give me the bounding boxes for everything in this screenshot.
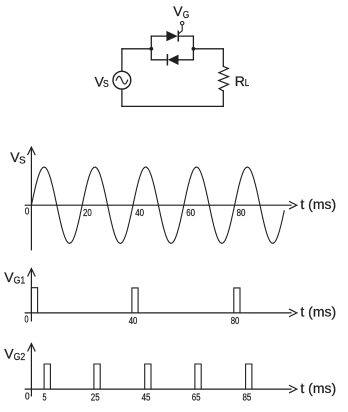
svg-text:S: S (103, 79, 109, 90)
svg-text:t (ms): t (ms) (300, 196, 336, 212)
wire RL bottom (222, 91, 224, 107)
svg-text:0: 0 (25, 315, 29, 326)
wire left horizontal (122, 48, 151, 50)
svg-text:t (ms): t (ms) (300, 304, 336, 320)
VG2 pulse at 85 (246, 364, 252, 389)
junction node left (149, 47, 153, 51)
svg-text:G: G (183, 10, 190, 21)
svg-text:t (ms): t (ms) (300, 380, 336, 396)
svg-text:0: 0 (25, 391, 30, 402)
resistor RL zigzag (219, 66, 229, 91)
svg-text:85: 85 (243, 392, 252, 403)
svg-text:S: S (19, 156, 26, 167)
wire RL top (222, 49, 224, 67)
thyristor SCR1 triangle (166, 31, 177, 41)
VG2 pulse at 65 (195, 364, 201, 389)
source VS sine symbol (116, 76, 127, 84)
VG2 plot y-axis (28, 344, 35, 396)
svg-text:45: 45 (142, 392, 151, 403)
svg-text:80: 80 (237, 208, 246, 219)
VG2 pulse at 5 (44, 364, 50, 389)
wire VS bottom (121, 89, 123, 106)
thyristor SCR1 cathode bar (177, 31, 179, 41)
VS plot x-axis (25, 202, 297, 209)
VG1 pulse at 0 (31, 288, 37, 313)
VG1 pulse at 40 (132, 288, 138, 313)
VS sine curve (31, 167, 284, 243)
gate wire (179, 25, 183, 34)
wire parallel-box right vertical (192, 36, 194, 60)
VG2 pulse at 25 (94, 364, 100, 389)
thyristor SCR2 triangle (168, 55, 179, 65)
VG2 plot x-axis (25, 386, 297, 393)
wire VS top (121, 49, 123, 72)
VG1 plot x-axis (25, 309, 297, 316)
svg-text:65: 65 (192, 392, 201, 403)
svg-text:G2: G2 (14, 352, 26, 363)
junction node right (192, 47, 196, 51)
svg-text:80: 80 (231, 316, 240, 327)
VG2 pulse at 45 (145, 364, 151, 389)
svg-text:V: V (173, 3, 183, 19)
wire bottom horizontal (122, 105, 223, 107)
wire SCR1 cathode (178, 35, 193, 37)
svg-text:25: 25 (91, 392, 100, 403)
source VS circle (113, 71, 131, 89)
wire SCR2 anode (179, 59, 194, 61)
svg-text:40: 40 (135, 208, 144, 219)
svg-text:0: 0 (25, 207, 30, 218)
svg-text:L: L (245, 78, 250, 89)
svg-text:40: 40 (129, 316, 138, 327)
wire right horizontal (193, 48, 223, 50)
wire SCR2 cathode (151, 59, 167, 61)
VS plot y-axis (28, 147, 35, 250)
svg-text:G1: G1 (14, 275, 26, 286)
wire parallel-box left vertical (150, 36, 152, 60)
svg-text:20: 20 (83, 208, 92, 219)
svg-text:R: R (235, 73, 245, 89)
svg-text:60: 60 (186, 208, 195, 219)
thyristor SCR2 cathode bar (166, 55, 168, 65)
VG1 pulse at 80 (234, 288, 240, 313)
wire SCR1 anode (151, 35, 167, 37)
svg-text:5: 5 (43, 392, 47, 403)
VG1 plot y-axis (28, 269, 35, 321)
terminal VG circle (181, 22, 184, 25)
